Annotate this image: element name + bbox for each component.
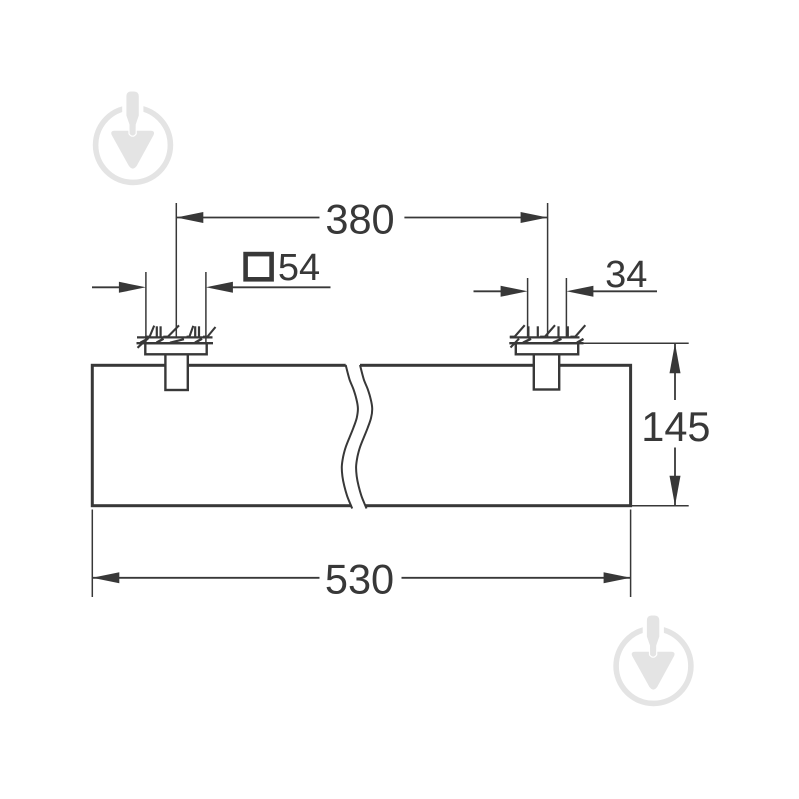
- extension line 34 right: [565, 278, 567, 337]
- wall hatch right: [509, 325, 585, 347]
- svg-text:145: 145: [641, 403, 710, 450]
- extension line 145 top: [583, 342, 689, 344]
- arrowhead 380 right: [521, 212, 548, 223]
- dimension 380 line left segment: [176, 217, 319, 219]
- svg-text:380: 380: [325, 196, 394, 243]
- svg-text:530: 530: [325, 556, 394, 603]
- dimension 145 line bottom segment: [674, 448, 676, 506]
- break line right: [356, 365, 372, 509]
- extension line 34 left: [527, 278, 529, 337]
- arrowhead 530 right: [604, 572, 631, 583]
- break band fill: [342, 362, 372, 510]
- extension line 54 right: [205, 272, 207, 342]
- arrowhead 380 left: [176, 212, 203, 223]
- extension line 380 right (bracket centerline): [547, 203, 549, 337]
- extension line 145 bottom: [632, 505, 689, 507]
- arrow 34 left: [474, 290, 504, 292]
- dimension 145 line top segment: [674, 343, 676, 400]
- dimension 530 line right segment: [402, 577, 631, 579]
- arrowhead 145 bottom: [670, 476, 681, 506]
- right bracket plate: [516, 343, 578, 354]
- arrowhead 145 top: [670, 343, 681, 373]
- wall hatch left: [137, 325, 216, 347]
- dimension 530 line left segment: [92, 577, 319, 579]
- arrow 54 left: [92, 286, 122, 288]
- svg-text:54: 54: [278, 247, 320, 289]
- shelf body rectangle: [92, 365, 630, 505]
- break line left: [342, 365, 358, 509]
- extension line 380 left (bracket centerline): [175, 203, 177, 337]
- arrow 34 right with leader: [590, 290, 657, 292]
- extension line 54 left: [145, 272, 147, 342]
- left mount stem: [165, 354, 187, 390]
- left bracket plate: [145, 343, 206, 354]
- extension line 530 right: [630, 510, 632, 598]
- arrowhead 530 left: [92, 572, 119, 583]
- dimension 380 line right segment: [404, 217, 547, 219]
- watermark logo top-left: [96, 88, 171, 182]
- watermark logo bottom-right: [616, 612, 691, 703]
- square symbol for 54: [246, 254, 272, 279]
- extension line 530 left: [91, 510, 93, 598]
- right mount stem: [534, 354, 559, 389]
- arrow 54 right with leader to label: [230, 286, 331, 288]
- svg-text:34: 34: [605, 254, 647, 296]
